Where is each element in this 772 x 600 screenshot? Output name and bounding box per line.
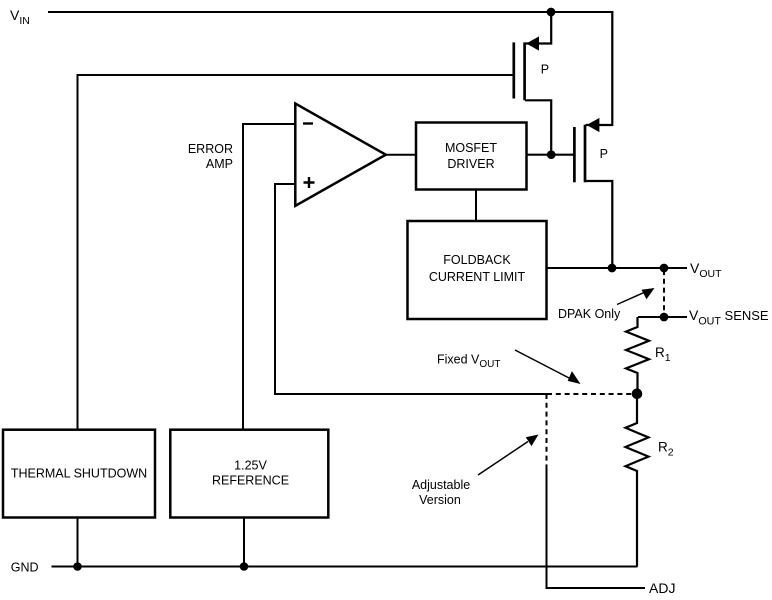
wire MOSFET driver to foldback current limit xyxy=(475,190,477,222)
junction reference at GND xyxy=(240,562,249,571)
op-amp U1 error amplifier xyxy=(295,104,386,206)
block FOLDBACK CURRENT LIMIT xyxy=(408,221,547,319)
wire error amp non-inverting input feedback xyxy=(275,184,547,394)
wire dashed adjustable version drop xyxy=(546,394,548,467)
arrow DPAK only annotation xyxy=(617,288,655,305)
svg-text:THERMAL SHUTDOWN: THERMAL SHUTDOWN xyxy=(11,466,147,480)
block MOSFET DRIVER xyxy=(416,123,527,190)
svg-text:Version: Version xyxy=(419,493,461,507)
junction driver output / Q1 drain xyxy=(547,150,556,159)
transistor Q2 (PMOS, lower) xyxy=(574,118,612,268)
junction VOUT SENSE xyxy=(660,313,669,322)
svg-text:P: P xyxy=(600,147,608,161)
svg-text:ADJ: ADJ xyxy=(649,580,675,596)
wire VOUT SENSE line xyxy=(638,316,687,318)
wire error amp output to MOSFET driver xyxy=(386,154,416,156)
svg-text:1.25V: 1.25V xyxy=(234,458,267,472)
svg-text:REFERENCE: REFERENCE xyxy=(212,474,289,488)
wire error amp inverting input from 1.25V reference xyxy=(243,124,295,429)
svg-text:P: P xyxy=(541,63,549,77)
transistor Q1 (PMOS, upper) xyxy=(514,12,551,155)
wire MOSFET driver output to Q2 gate xyxy=(527,154,574,156)
arrow fixed VOUT annotation xyxy=(515,350,581,384)
resistor R2 xyxy=(626,394,649,567)
wire dashed fixed version feedback xyxy=(547,393,637,395)
wire VIN rail xyxy=(48,11,613,13)
resistor R1 xyxy=(626,317,649,394)
svg-text:DRIVER: DRIVER xyxy=(447,157,494,171)
block 1.25V REFERENCE xyxy=(170,430,328,518)
svg-text:MOSFET: MOSFET xyxy=(445,141,497,155)
wire thermal shutdown to GND xyxy=(77,518,79,567)
junction VOUT / DPAK sense xyxy=(660,264,669,273)
svg-text:DPAK Only: DPAK Only xyxy=(558,307,621,321)
arrow adjustable version annotation xyxy=(478,435,539,476)
junction VIN rail to Q1 xyxy=(547,8,556,17)
svg-text:ERROR: ERROR xyxy=(188,142,233,156)
svg-text:FOLDBACK: FOLDBACK xyxy=(443,253,511,267)
junction feedback divider node xyxy=(632,389,643,400)
junction thermal shutdown at GND xyxy=(73,562,82,571)
svg-text:AMP: AMP xyxy=(206,157,233,171)
wire VIN rail down to Q2 source xyxy=(611,11,613,126)
wire adjustable version to ADJ pin xyxy=(547,467,646,588)
svg-text:Adjustable: Adjustable xyxy=(412,478,470,492)
wire dashed DPAK only link xyxy=(663,270,665,317)
junction Q2 drain at VOUT xyxy=(608,264,617,273)
wire thermal shutdown to Q1 gate xyxy=(78,75,513,429)
wire GND rail xyxy=(52,566,638,568)
svg-text:CURRENT LIMIT: CURRENT LIMIT xyxy=(429,270,526,284)
wire 1.25V reference to GND xyxy=(243,518,245,567)
block THERMAL SHUTDOWN xyxy=(3,430,155,518)
wire VOUT line xyxy=(547,267,688,269)
svg-text:GND: GND xyxy=(11,560,39,574)
